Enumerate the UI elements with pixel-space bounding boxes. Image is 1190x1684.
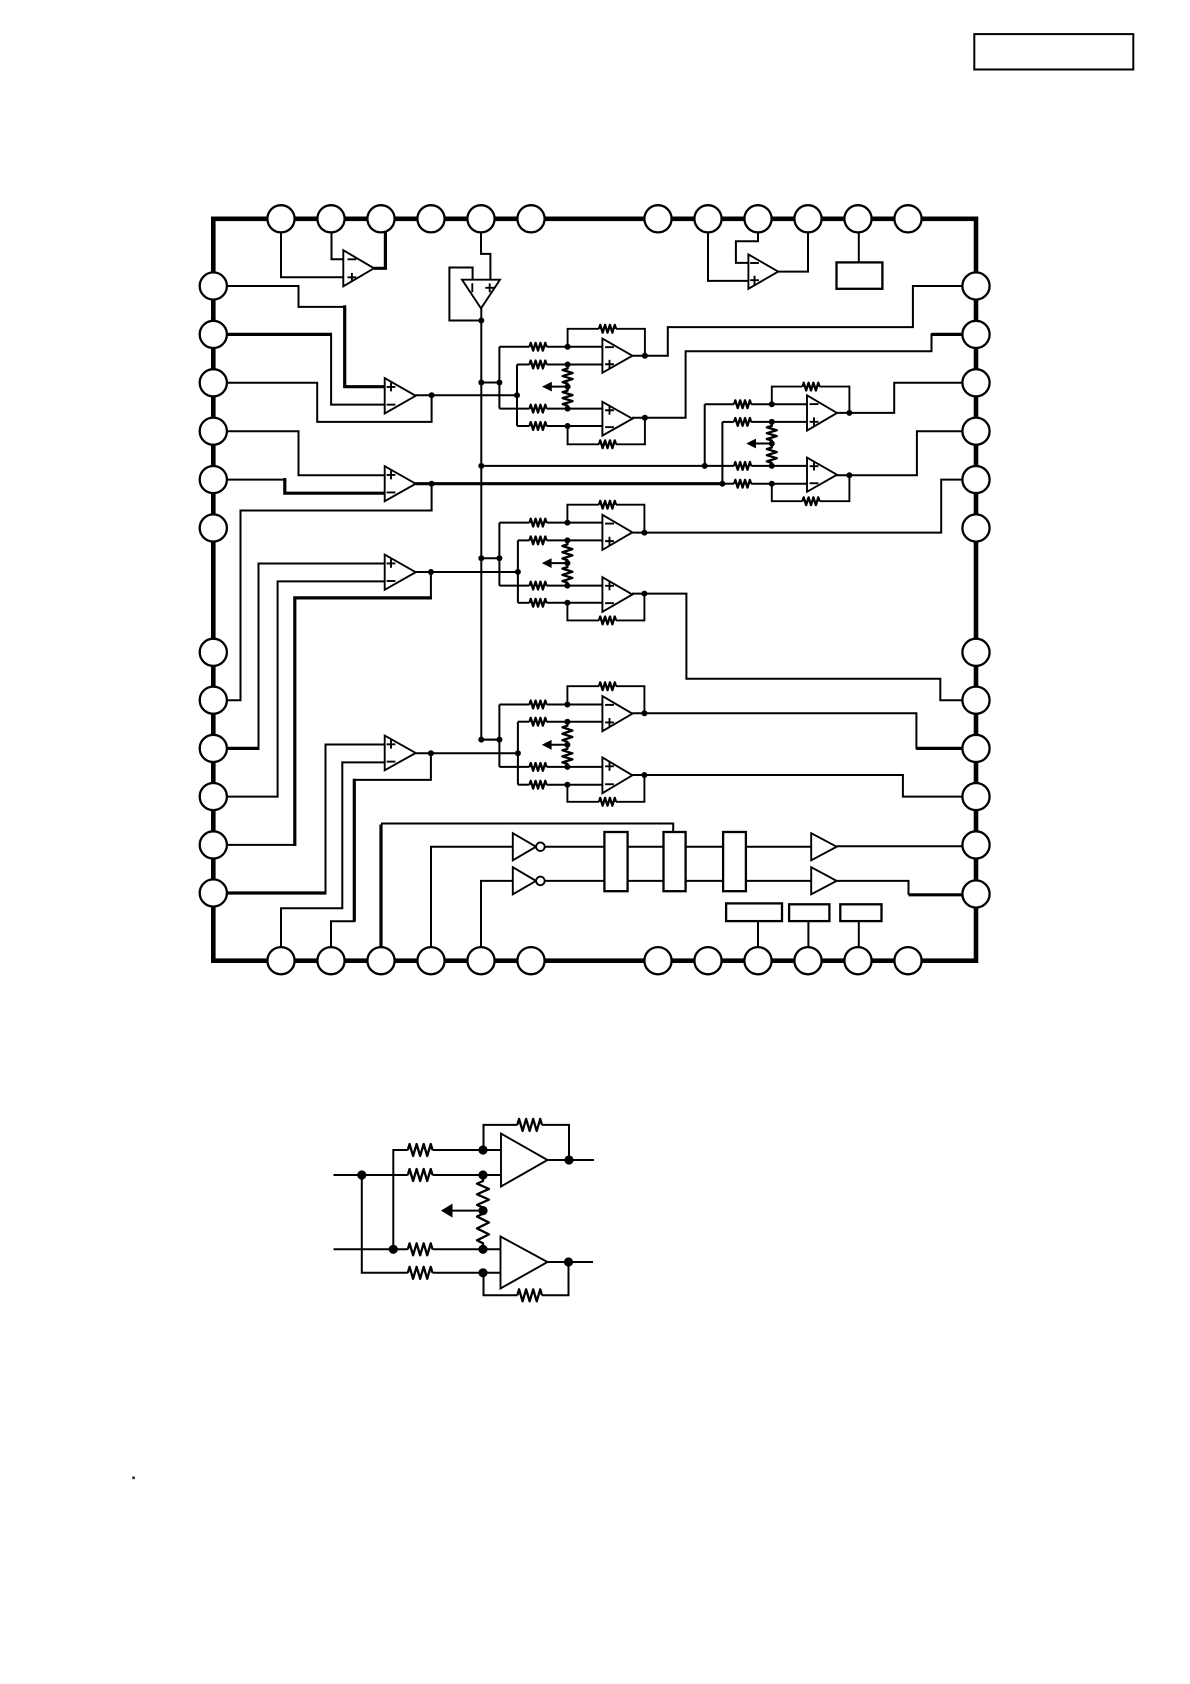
wire block 2 row c to op-amp: [751, 465, 808, 467]
resistor detail Rb: [408, 1169, 433, 1181]
junction (644,775): [641, 772, 647, 778]
junction (432,395): [429, 392, 435, 398]
register box 1: [604, 832, 627, 891]
junction (849,475): [846, 472, 852, 478]
pin left 7: [200, 639, 227, 666]
junction (481,320): [478, 318, 484, 324]
wire block 4 upper feedback loop: [567, 686, 599, 704]
junction (567,540): [564, 537, 570, 543]
pin bottom 10: [794, 947, 821, 974]
pin right 5: [962, 466, 989, 493]
potentiometer block 1 wiper arrow: [551, 386, 568, 388]
wire block 4 row b lead: [518, 721, 530, 723]
junction (644,533): [641, 530, 647, 536]
wire detail row c to node: [433, 1248, 484, 1250]
junction (481,558): [478, 555, 484, 561]
wire pin T11 to mode box: [858, 231, 860, 262]
pin right 9: [962, 735, 989, 762]
register box 2: [664, 832, 686, 891]
wire op-amp B output to pin L3: [227, 383, 432, 422]
wire detail row d to node: [433, 1272, 484, 1274]
pin right 10: [962, 783, 989, 810]
pin top 11: [844, 205, 871, 232]
pin top 5: [467, 205, 494, 232]
wire block 1 upper feedback loop: [568, 329, 599, 347]
resistor block 2 Rc: [734, 462, 751, 470]
wire pin B4 to inverter 1 input: [431, 847, 514, 948]
wire pin L12 to op-amp E + input: [227, 891, 327, 894]
potentiometer detail lower half: [477, 1211, 489, 1250]
wire block 2 row b lead: [722, 421, 734, 423]
potentiometer detail wiper arrow: [453, 1210, 484, 1212]
wire detail node a to op-amp: [483, 1149, 503, 1151]
wire pin L10 to op-amp D - input: [227, 581, 385, 796]
pin top 9: [744, 205, 771, 232]
wire block 2 row b to op-amp: [751, 421, 808, 423]
pin left 8: [200, 687, 227, 714]
resistor block 4 Rc: [530, 763, 547, 771]
resistor block 4 upper feedback: [599, 682, 616, 690]
resistor block 2 Rb: [734, 418, 751, 426]
wire block 2 upper output to pin R3: [837, 383, 964, 413]
pin bottom 3: [367, 947, 394, 974]
pin left 3: [200, 369, 227, 396]
junction detail (483,1175): [478, 1170, 487, 1179]
wire block 3 row b to op-amp: [547, 539, 604, 541]
label box 2 (bottom): [789, 904, 829, 921]
resistor block 3 Ra: [530, 519, 547, 527]
junction (499,558): [496, 555, 502, 561]
potentiometer block 3 lower half: [562, 563, 572, 585]
junction (772,444): [769, 441, 775, 447]
wire block 1 upper output to pin R1: [632, 286, 964, 356]
resistor block 1 Rc: [530, 405, 547, 413]
pin left 1: [200, 272, 227, 299]
resistor block 1 Ra: [530, 343, 547, 351]
junction (568,426): [565, 423, 571, 429]
wire pin L2 to op-amp B - input: [227, 333, 331, 336]
junction (644,594): [641, 591, 647, 597]
wire pin T9 to op-amp F - input: [736, 232, 758, 263]
resistor block 4 lower feedback: [599, 798, 616, 806]
wire VREF distribution line (A2 output down the middle): [481, 306, 499, 740]
wire detail input 1: [334, 1174, 408, 1176]
resistor block 3 lower feedback: [599, 617, 616, 625]
node block 2 ref column: [704, 404, 706, 466]
wire block 3 row a to op-amp: [547, 522, 604, 524]
wire block 2 upper feedback loop: [772, 387, 803, 405]
pin bottom 8: [694, 947, 721, 974]
wire block 3 lower feedback loop: [567, 603, 599, 621]
pin top 12: [894, 205, 921, 232]
junction detail (393,1249): [389, 1245, 398, 1254]
pin top 6: [517, 205, 544, 232]
wire block 3 row d lead: [518, 602, 530, 604]
junction (705,466): [702, 463, 708, 469]
resistor block 4 Rd: [530, 781, 547, 789]
op-amp D (left buffer 3): [385, 555, 416, 590]
pin right 8: [962, 687, 989, 714]
junction (849,413): [846, 410, 852, 416]
resistor block 3 Rd: [530, 599, 547, 607]
resistor detail Rd: [408, 1267, 433, 1279]
wire block 4 lower output to pin R10: [632, 775, 964, 797]
wire pin L9 to op-amp D + input: [227, 747, 260, 750]
junction (481,466): [478, 463, 484, 469]
op-amp A2 reference buffer (points down): [462, 280, 500, 309]
junction (772,404): [769, 401, 775, 407]
wire detail input 1 branch to row d: [362, 1175, 408, 1273]
op-amp block 4 upper: [602, 696, 632, 731]
pin top 4: [417, 205, 444, 232]
pin bottom 5: [467, 947, 494, 974]
op-amp A1 (top left): [343, 250, 374, 286]
junction (645,356): [642, 353, 648, 359]
buffer 2: [811, 867, 837, 894]
wire block 4 row c to op-amp: [547, 766, 604, 768]
wire block 1 row b lead: [517, 364, 530, 366]
pin right 12: [962, 880, 989, 907]
resistor detail Rc: [408, 1243, 433, 1255]
wire block 1 lower feedback loop: [568, 426, 599, 444]
wire VREF tap into block 2 (runs along r3 row): [481, 465, 734, 467]
junction (568,347): [565, 344, 571, 350]
pin left 11: [200, 831, 227, 858]
pin bottom 4: [417, 947, 444, 974]
pin bottom 12: [894, 947, 921, 974]
resistor detail lower feedback: [517, 1289, 542, 1301]
wire detail input 2 branch to row a: [393, 1150, 408, 1249]
junction (567,722): [564, 719, 570, 725]
IC package outline: [213, 219, 976, 961]
pin left 12: [200, 879, 227, 906]
wire detail node d to op-amp: [483, 1272, 503, 1274]
resistor block 1 Rd: [530, 422, 547, 430]
junction detail (483,1150): [478, 1145, 487, 1154]
pin left 5: [200, 466, 227, 493]
junction (567,563): [564, 560, 570, 566]
op-amp F (top right): [748, 254, 778, 288]
wire op-amp F output to pin T10: [778, 231, 808, 271]
junction (568,364): [565, 362, 571, 368]
wire block 1 row c to op-amp: [547, 408, 604, 410]
wire block 2 lower feedback loop: [772, 484, 803, 502]
wire block 3 row d to op-amp: [547, 602, 604, 604]
wire block 1 row b to op-amp: [547, 364, 604, 366]
op-amp block 3 upper: [602, 515, 632, 550]
junction (567,603): [564, 600, 570, 606]
wire block 3 row b lead: [518, 539, 530, 541]
op-amp E (left buffer 4): [385, 736, 416, 771]
wire block 3 row c to op-amp: [547, 585, 604, 587]
wire block 2 lower output to pin R4: [837, 431, 964, 475]
pin right 2: [962, 321, 989, 348]
wire pin T2 to op-amp A1 - input: [332, 232, 345, 259]
junction (722,484): [719, 481, 725, 487]
resistor block 3 upper feedback: [599, 501, 616, 509]
pin bottom 11: [844, 947, 871, 974]
wire op-amp A2 feedback loop to - input: [449, 268, 481, 321]
wire block 4 lower feedback loop: [567, 785, 599, 802]
junction (518,753): [515, 750, 521, 756]
node block 3 ref column: [498, 523, 500, 586]
wire block 3 upper output to pin R5: [632, 480, 964, 533]
wire op-amp E output to pin B2: [353, 753, 431, 780]
pin left 6: [200, 514, 227, 541]
wire op-amp E output to filter block 4 input: [415, 752, 518, 754]
op-amp C (left buffer 2): [385, 466, 416, 501]
pin right 11: [962, 831, 989, 858]
register box 3: [723, 832, 746, 891]
pin top 10: [794, 205, 821, 232]
junction (567,586): [564, 583, 570, 589]
junction (772,466): [769, 463, 775, 469]
pin top 8: [694, 205, 721, 232]
wire block 1 signal input column: [516, 365, 518, 427]
wire block 4 row d lead: [518, 784, 530, 786]
wire buffer 1 output to pin R11: [837, 845, 964, 847]
junction detail (483,1273): [478, 1268, 487, 1277]
wire block 3 lower output to pin R8: [632, 594, 964, 701]
resistor block 2 lower feedback: [803, 497, 820, 505]
stray period mark bottom-left: [132, 1477, 135, 1480]
junction (481,382): [478, 380, 484, 386]
junction (431,753): [428, 750, 434, 756]
junction detail (568,1262): [564, 1257, 573, 1266]
wire block 2 row d lead: [722, 483, 734, 485]
pin right 7: [962, 639, 989, 666]
potentiometer block 1 upper half: [563, 365, 573, 387]
buffer 1: [811, 833, 837, 860]
pin right 3: [962, 369, 989, 396]
inverter 1: [513, 833, 536, 860]
pin top 2: [317, 205, 344, 232]
wire pin T8 to op-amp F + input: [708, 232, 748, 281]
pin bottom 6: [517, 947, 544, 974]
title block rectangle (top right, empty): [974, 34, 1133, 69]
wire pin B1 to op-amp E - input: [281, 762, 385, 947]
junction (772,484): [769, 481, 775, 487]
op-amp block 1 upper: [602, 339, 632, 373]
pin bottom 2: [317, 947, 344, 974]
wire op-amp A1 output to pin T3: [374, 231, 385, 268]
wire block 4 row b to op-amp: [547, 721, 604, 723]
resistor block 2 Ra: [734, 400, 751, 408]
wire detail row b to node: [433, 1174, 484, 1176]
wire block 1 row a to op-amp: [547, 346, 604, 348]
wire block 4 row d to op-amp: [547, 784, 604, 786]
op-amp block 4 lower: [602, 757, 632, 793]
op-amp B (left buffer 1): [385, 378, 416, 413]
junction (499,740): [496, 737, 502, 743]
junction detail (362,1175): [357, 1170, 366, 1179]
junction detail (569,1160): [564, 1155, 573, 1164]
pin right 4: [962, 418, 989, 445]
wire block 4 row a lead: [499, 704, 529, 706]
junction (568,409): [565, 406, 571, 412]
junction (644,713): [641, 710, 647, 716]
pin top 1: [267, 205, 294, 232]
potentiometer block 2 wiper arrow: [755, 443, 772, 445]
wire detail node c to op-amp: [483, 1248, 503, 1250]
junction (567,704): [564, 702, 570, 708]
wire block 2 row a lead: [705, 403, 734, 405]
wire block 4 row c lead: [499, 766, 529, 768]
node block 4 ref column: [498, 705, 500, 767]
pin bottom 1: [267, 947, 294, 974]
wire block 1 row a lead: [499, 346, 529, 348]
junction (431,572): [428, 569, 434, 575]
resistor block 2 Rd: [734, 480, 751, 488]
wire detail input 2: [334, 1248, 408, 1250]
wire block 4 upper output to pin R9: [632, 713, 916, 749]
wire block 1 lower output to pin R2: [632, 333, 932, 417]
pin top 3: [367, 205, 394, 232]
wire block 2 signal input column: [721, 422, 723, 484]
junction detail (483,1249): [478, 1245, 487, 1254]
wire pin L5 to op-amp C - input: [227, 479, 285, 481]
wire op-amp D output to pin L11: [430, 572, 432, 598]
resistor block 3 Rb: [530, 537, 547, 545]
wire block 3 row c lead: [499, 585, 529, 587]
wire detail node b to op-amp: [483, 1174, 503, 1176]
wire VREF tap into block 1: [481, 382, 499, 384]
resistor block 4 Ra: [530, 701, 547, 709]
junction (568,387): [565, 384, 571, 390]
wire block 1 row d to op-amp: [547, 425, 604, 427]
wire block 1 row d lead: [517, 425, 530, 427]
wire block 4 signal input column: [517, 722, 519, 785]
wire detail lower feedback loop: [484, 1273, 518, 1296]
pin right 1: [962, 272, 989, 299]
wire block 1 row c lead: [499, 408, 529, 410]
potentiometer block 1 lower half: [563, 387, 573, 409]
potentiometer detail upper half: [477, 1175, 489, 1211]
wire detail upper output: [548, 1159, 595, 1161]
junction (518,572): [515, 569, 521, 575]
wire VREF tap into block 3: [481, 557, 499, 559]
op-amp block 2 lower: [807, 458, 837, 492]
op-amp detail lower (no labels): [501, 1237, 548, 1289]
potentiometer block 4 upper half: [562, 722, 572, 745]
resistor detail Ra: [408, 1144, 433, 1156]
wire detail upper feedback loop: [484, 1125, 518, 1150]
wire buffer 2 output to pin R12: [837, 881, 909, 895]
wire block 2 row a to op-amp: [751, 403, 808, 405]
wire pin L4 to op-amp C + input: [227, 431, 385, 475]
potentiometer block 4 lower half: [562, 745, 572, 767]
wire pin B5 to inverter 2 input: [481, 881, 514, 947]
junction (567,745): [564, 742, 570, 748]
op-amp block 2 upper: [807, 395, 837, 430]
wire block 4 row a to op-amp: [547, 704, 604, 706]
pin left 4: [200, 418, 227, 445]
wire logic row 1: [545, 846, 813, 848]
pin right 6: [962, 514, 989, 541]
resistor block 2 upper feedback: [803, 383, 820, 391]
inverter 2: [513, 867, 536, 894]
label box 3 (bottom): [840, 904, 881, 921]
wire VREF tap into block 4: [481, 739, 499, 741]
potentiometer block 2 lower half: [767, 444, 777, 466]
pin top 7: [644, 205, 671, 232]
wire block 2 row d to op-amp: [751, 483, 808, 485]
wire block 3 row a lead: [499, 522, 529, 524]
label box 1 (bottom): [726, 903, 782, 921]
junction (645,418): [642, 415, 648, 421]
junction (567,767): [564, 764, 570, 770]
resistor detail upper feedback: [517, 1119, 542, 1131]
potentiometer block 3 wiper arrow: [551, 562, 568, 564]
wire op-amp B output to filter block 1 input: [415, 394, 517, 396]
junction (567,523): [564, 520, 570, 526]
wire detail lower output: [548, 1261, 594, 1263]
junction (432,484): [429, 481, 435, 487]
junction (499,382): [496, 380, 502, 386]
op-amp detail upper (no labels): [501, 1134, 548, 1187]
resistor block 3 Rc: [530, 582, 547, 590]
wire op-amp C output to filter block 2 input: [415, 482, 722, 485]
wire pin L1 to op-amp B + input: [227, 286, 345, 307]
wire op-amp D output to filter block 3 input: [415, 571, 518, 573]
junction (517,395): [514, 392, 520, 398]
wire op-amp C output to pin L8: [227, 484, 432, 701]
wire detail row a to node: [433, 1149, 484, 1151]
junction (481,740): [478, 737, 484, 743]
potentiometer block 4 wiper arrow: [551, 744, 568, 746]
mode box (below pin T11): [837, 262, 883, 288]
resistor block 1 lower feedback: [599, 440, 616, 448]
wire pin B3 up to register clock line: [379, 825, 382, 948]
pin left 9: [200, 735, 227, 762]
wire logic row 2: [536, 880, 812, 882]
wire pin T1 to op-amp A1 + input: [281, 232, 344, 277]
node block 1 ref column: [498, 347, 500, 409]
pin left 2: [200, 321, 227, 348]
junction (567,785): [564, 782, 570, 788]
wire block 3 signal input column: [517, 540, 519, 602]
potentiometer block 3 upper half: [562, 540, 572, 563]
pin bottom 7: [644, 947, 671, 974]
pin left 10: [200, 783, 227, 810]
junction (772,422): [769, 419, 775, 425]
wire pin T5 to op-amp A2 + input: [481, 232, 490, 280]
wire block 3 upper feedback loop: [567, 505, 599, 523]
op-amp block 3 lower: [602, 577, 632, 612]
potentiometer block 2 upper half: [767, 422, 777, 444]
resistor block 1 upper feedback: [599, 325, 616, 333]
pin bottom 9: [744, 947, 771, 974]
resistor block 1 Rb: [530, 361, 547, 369]
junction detail (483,1211): [478, 1206, 487, 1215]
op-amp block 1 lower: [602, 402, 632, 436]
resistor block 4 Rb: [530, 718, 547, 726]
